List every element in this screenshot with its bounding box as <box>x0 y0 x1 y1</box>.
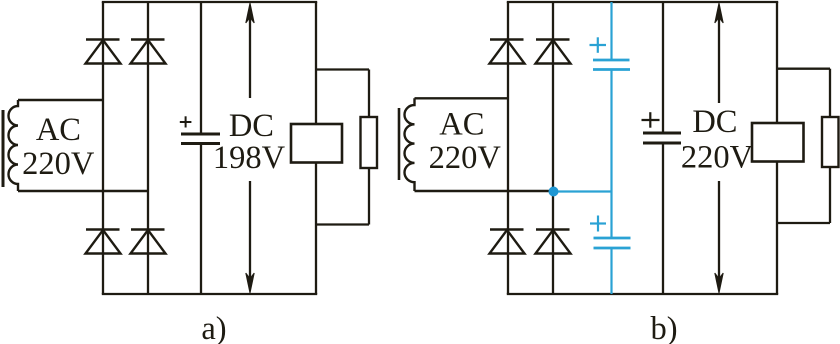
svg-text:AC: AC <box>36 112 81 148</box>
load box (circuit a) <box>291 124 342 163</box>
wire: resistor lower lead (circuit b) <box>829 167 831 223</box>
resistor R2 (circuit b) <box>822 117 839 167</box>
svg-text:220V: 220V <box>681 139 754 175</box>
AC source box top edge (circuit b) <box>415 97 509 99</box>
capacitor C3 plates (blue, lower) <box>594 238 631 248</box>
wire: blue branch lower segment <box>610 248 612 294</box>
wire: top bus (circuit b) <box>507 1 778 3</box>
wire: output right leg (circuit a) <box>315 2 317 294</box>
wire: resistor upper lead (circuit b) <box>829 69 831 117</box>
wire: output branch bottom (circuit a) <box>316 223 369 225</box>
svg-text:220V: 220V <box>22 146 95 182</box>
transformer T2 core (circuit b) <box>398 108 401 180</box>
AC source box top edge (circuit a) <box>18 99 103 101</box>
wire: output right leg (circuit b) <box>776 2 778 294</box>
capacitor C2 plus sign <box>590 37 607 53</box>
svg-text:198V: 198V <box>213 140 286 176</box>
wire: bottom bus (circuit a) <box>102 293 317 295</box>
junction node dot (blue) <box>549 187 559 197</box>
diode D8 (bottom right, circuit b) <box>536 230 571 254</box>
diode D3 (bottom left, circuit a) <box>86 230 121 254</box>
capacitor C1 plates (circuit a) <box>181 134 220 144</box>
AC source box bottom edge / lower AC lead (circuit b) <box>415 190 554 192</box>
wire: blue branch middle segment <box>610 70 612 239</box>
diode D4 (bottom right, circuit a) <box>131 230 166 254</box>
AC source box bottom edge / lower AC lead (circuit a) <box>18 190 148 192</box>
wire: capacitor branch upper segment (circuit a) <box>200 2 202 134</box>
wire: blue tap to junction node <box>554 190 612 192</box>
resistor R1 (circuit a) <box>361 117 378 168</box>
svg-text:AC: AC <box>439 107 484 143</box>
transformer T2 winding (circuit b) <box>405 98 415 191</box>
wire: capacitor branch lower segment (circuit b) <box>662 143 664 294</box>
wire: capacitor branch upper segment (circuit b) <box>662 2 664 133</box>
wire: blue branch upper segment <box>610 2 612 60</box>
wire: output branch top (circuit a) <box>316 68 369 70</box>
svg-text:DC: DC <box>229 108 274 144</box>
wire: bridge left leg (circuit b) <box>507 2 509 294</box>
wire: bridge right leg (circuit a) <box>147 2 149 294</box>
wire: top bus (circuit a) <box>102 1 317 3</box>
wire: output branch top (circuit b) <box>777 68 830 70</box>
wire: capacitor branch lower segment (circuit a) <box>200 144 202 295</box>
DC voltage arrow (circuit a) <box>246 3 254 293</box>
wire: bridge left leg (circuit a) <box>102 2 104 294</box>
wire: bottom bus (circuit b) <box>507 293 778 295</box>
svg-text:a): a) <box>201 311 226 344</box>
transformer T1 core (circuit a) <box>2 110 5 187</box>
capacitor C1 plus sign (circuit a) <box>180 116 192 127</box>
svg-text:220V: 220V <box>429 140 502 176</box>
DC voltage arrow (circuit b) <box>715 3 723 293</box>
wire: resistor upper lead (circuit a) <box>368 70 370 118</box>
capacitor C4 plates (black, circuit b) <box>643 133 681 143</box>
transformer T1 winding (circuit a) <box>9 100 19 191</box>
diode D7 (bottom left, circuit b) <box>490 230 525 254</box>
diode D5 (top left, circuit b) <box>490 40 525 64</box>
capacitor C2 plates (blue, upper) <box>593 60 630 70</box>
wire: resistor lower lead (circuit a) <box>368 168 370 225</box>
diode D1 (top left, circuit a) <box>86 40 121 64</box>
svg-text:DC: DC <box>692 104 737 140</box>
wire: output branch bottom (circuit b) <box>777 222 830 224</box>
diode D2 (top right, circuit a) <box>131 40 166 64</box>
diode D6 (top right, circuit b) <box>536 40 571 64</box>
svg-text:b): b) <box>650 311 677 344</box>
load box (circuit b) <box>752 123 804 162</box>
wire: bridge right leg (circuit b) <box>552 2 554 294</box>
capacitor C4 plus sign (circuit b) <box>642 112 660 128</box>
capacitor C3 plus sign <box>590 216 606 232</box>
